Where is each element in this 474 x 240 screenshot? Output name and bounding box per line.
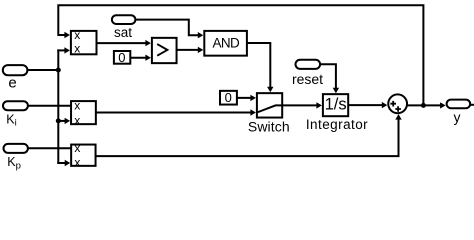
wire: constant zero C2 to switch input 1 (237, 97, 251, 99)
sum block (circle with plus signs) (388, 94, 407, 113)
wire: Ki source to product U2 input 1 (29, 105, 70, 107)
wire: product U2 output to switch input 2 (97, 112, 252, 114)
product block U3 (Kp x e) (71, 141, 95, 169)
input port oval Ki (3, 101, 28, 128)
svg-text:1/s: 1/s (325, 95, 347, 113)
input port oval Kp (4, 144, 28, 171)
wire: relational operator output to AND input 2 (177, 49, 199, 51)
wire stub: output port y right-edge tick (471, 104, 474, 106)
svg-text:Switch: Switch (248, 118, 290, 134)
wire: AND output down to switch control input (248, 43, 271, 88)
svg-text:x: x (74, 113, 80, 127)
svg-text:AND: AND (212, 35, 240, 50)
arrowhead into output port y (440, 102, 446, 108)
wire: product U1 output to relational operator input 1 (97, 42, 147, 44)
svg-text:e: e (8, 74, 16, 91)
arrowhead into relational operator input 2 (145, 55, 151, 61)
wire: e vertical distribution line (57, 50, 59, 163)
wire: e source to junction (28, 69, 58, 71)
input port oval e (3, 65, 28, 91)
wire: e branch to product U3 input 2 (58, 162, 65, 164)
wire: constant zero C1 to relational operator input 2 (130, 57, 146, 59)
wire: switch output to integrator input (283, 104, 317, 106)
input port oval reset (292, 60, 323, 87)
wire: feedback from sum output up over the top to product U1 input 1 (58, 5, 423, 105)
arrowhead up into sum bottom input (395, 114, 401, 120)
svg-text:x: x (74, 141, 80, 155)
arrowhead into sum left input (382, 102, 388, 108)
product block U2 (Ki x e) (71, 98, 96, 127)
svg-text:reset: reset (292, 71, 323, 87)
wire: Kp source to product U3 input 1 (29, 147, 70, 149)
constant block C1 value 0 (114, 50, 130, 65)
arrowhead into switch input 2 (250, 109, 256, 115)
junction dot at e branch (56, 68, 61, 73)
svg-text:x: x (74, 155, 80, 169)
integrator block 1/s (323, 94, 348, 116)
svg-text:0: 0 (118, 50, 125, 65)
junction dot at sum output branch (421, 103, 426, 108)
svg-text:x: x (74, 42, 80, 56)
svg-text:x: x (74, 98, 80, 112)
constant block C2 value 0 (220, 90, 237, 105)
arrowhead into switch input 1 (250, 95, 256, 101)
wire: product U3 output to sum bottom input (96, 119, 398, 157)
wire: sat source to AND input 1 (135, 20, 198, 36)
svg-text:sat: sat (114, 25, 132, 40)
arrowhead into product U3 input 2 (65, 160, 71, 166)
svg-text:Integrator: Integrator (306, 117, 368, 132)
input port oval sat (112, 15, 135, 40)
arrowhead into integrator input (316, 102, 322, 108)
output port oval y (447, 100, 471, 125)
logical operator block AND (204, 31, 247, 56)
svg-text:0: 0 (225, 90, 232, 105)
arrowhead down into switch control input (267, 87, 273, 93)
wire: e branch to product U2 input 2 (58, 120, 65, 122)
product block U1 (feedback x e) (71, 28, 97, 56)
arrowhead into AND input 2 (198, 47, 204, 53)
svg-text:x: x (74, 28, 80, 42)
relational operator block (greater than) (152, 38, 177, 63)
arrowhead into AND input 1 (198, 32, 204, 38)
arrowhead down into integrator reset input (333, 88, 339, 94)
wire: reset source down to integrator reset input (321, 64, 336, 88)
svg-text:y: y (454, 109, 461, 125)
arrowhead into product U1 input 1 (64, 32, 70, 38)
arrowhead into product U2 input 2 (65, 118, 71, 124)
switch block (257, 93, 282, 117)
wire: sum output to output port y (408, 104, 441, 106)
wire: integrator output to sum input (349, 104, 383, 106)
wire: e branch to product U1 input 2 (58, 49, 65, 51)
junction dot at product U2 input 2 branch (56, 118, 61, 123)
arrowhead into product U1 input 2 (64, 47, 70, 53)
arrowhead into relational operator input 1 (145, 40, 151, 46)
